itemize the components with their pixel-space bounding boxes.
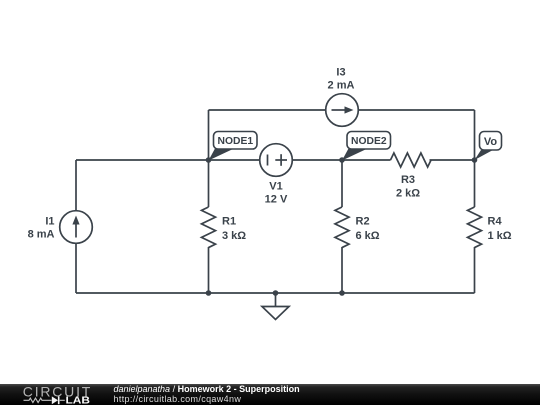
footer title text — [114, 384, 300, 394]
current source I3 arrow — [332, 106, 354, 113]
svg-text:I3: I3 — [336, 67, 345, 79]
label I3 value — [328, 67, 355, 92]
wire R3 right lead — [430, 159, 475, 161]
voltage source V1 plus sign — [275, 154, 287, 166]
wire R1 bottom lead — [208, 247, 210, 293]
node junction dot NODE2 — [339, 157, 345, 163]
wire NODE1 vertical up — [208, 110, 210, 160]
svg-text:V1: V1 — [269, 180, 282, 192]
resistor R4 zigzag — [468, 207, 482, 248]
wire middle horizontal I1 to V1 to NODE2 — [76, 159, 342, 161]
resistor R3 zigzag — [391, 153, 432, 167]
svg-text:8 mA: 8 mA — [28, 228, 55, 240]
voltage source V1 circle — [260, 144, 293, 177]
label R2 value — [356, 215, 380, 241]
svg-text:3 kΩ: 3 kΩ — [222, 230, 246, 242]
node junction dot ground — [273, 290, 279, 296]
svg-text:2 mA: 2 mA — [328, 80, 355, 92]
voltage source V1 minus sign — [267, 155, 269, 166]
node junction dot R1 bottom — [206, 290, 212, 296]
node flag NODE2 — [342, 132, 391, 161]
label R3 value — [396, 174, 420, 199]
svg-text:Vo: Vo — [484, 136, 498, 148]
svg-text:R4: R4 — [488, 215, 503, 227]
svg-text:NODE2: NODE2 — [351, 136, 387, 147]
svg-text:6 kΩ: 6 kΩ — [356, 230, 380, 242]
svg-text:12 V: 12 V — [265, 193, 288, 205]
wire right vertical from top-right corner to Vo node — [474, 110, 476, 160]
ground symbol — [262, 293, 289, 320]
resistor R2 zigzag — [335, 207, 349, 248]
node junction dot NODE1 — [206, 157, 212, 163]
footer url text — [114, 394, 242, 404]
label V1 value — [265, 180, 288, 205]
wire R2 top lead — [341, 160, 343, 207]
svg-text:NODE1: NODE1 — [218, 136, 254, 147]
wire bottom horizontal — [76, 292, 475, 294]
wire top horizontal from NODE1 to I3 to top-right corner — [209, 109, 475, 111]
node flag Vo — [475, 132, 502, 161]
current source I1 circle — [60, 211, 93, 244]
node junction dot Vo — [472, 157, 478, 163]
svg-text:R1: R1 — [222, 215, 236, 227]
label I1 value — [28, 215, 55, 240]
wire R4 top lead — [474, 160, 476, 207]
CircuitLab logo — [14, 384, 100, 405]
node flag NODE1 — [209, 132, 258, 161]
wire I1 branch vertical — [75, 160, 77, 293]
svg-text:LAB: LAB — [66, 396, 91, 405]
label R1 value — [222, 215, 246, 241]
svg-text:1 kΩ: 1 kΩ — [488, 230, 512, 242]
wire R3 left lead — [342, 159, 391, 161]
wire R4 bottom lead — [474, 247, 476, 293]
wire R2 bottom lead — [341, 247, 343, 293]
svg-text:2 kΩ: 2 kΩ — [396, 187, 420, 199]
resistor R1 zigzag — [202, 207, 216, 248]
label R4 value — [488, 215, 512, 241]
footer bar — [0, 384, 540, 405]
svg-text:R2: R2 — [356, 215, 370, 227]
node junction dot R2 bottom — [339, 290, 345, 296]
current source I1 arrow — [72, 216, 79, 238]
wire R1 top lead — [208, 160, 210, 207]
svg-text:I1: I1 — [45, 215, 54, 227]
current source I3 circle — [326, 94, 359, 127]
svg-text:R3: R3 — [401, 174, 415, 186]
